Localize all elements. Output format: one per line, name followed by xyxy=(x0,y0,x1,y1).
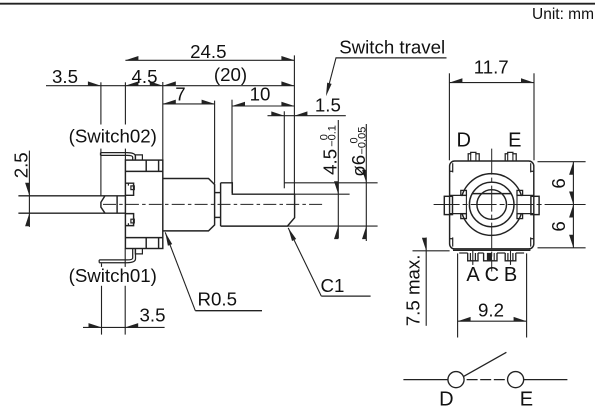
svg-text:4.5: 4.5 xyxy=(319,149,340,175)
svg-text:10: 10 xyxy=(250,83,271,104)
svg-text:R0.5: R0.5 xyxy=(198,288,237,309)
svg-text:7.5 max.: 7.5 max. xyxy=(403,255,424,327)
svg-text:11.7: 11.7 xyxy=(474,56,509,77)
svg-text:6: 6 xyxy=(548,178,569,188)
svg-text:Unit: mm: Unit: mm xyxy=(532,6,594,23)
svg-text:E: E xyxy=(508,129,521,151)
svg-text:2.5: 2.5 xyxy=(11,152,32,178)
svg-text:D: D xyxy=(456,129,470,151)
svg-text:C: C xyxy=(485,264,499,286)
svg-text:D: D xyxy=(439,389,453,411)
svg-text:Switch travel: Switch travel xyxy=(339,36,445,57)
svg-text:B: B xyxy=(504,264,517,286)
svg-text:E: E xyxy=(520,389,533,411)
svg-text:7: 7 xyxy=(175,83,185,104)
svg-text:A: A xyxy=(466,264,480,286)
svg-text:−0.1: −0.1 xyxy=(327,125,339,147)
svg-text:4.5: 4.5 xyxy=(132,66,158,87)
svg-text:3.5: 3.5 xyxy=(140,305,166,326)
svg-text:−0.05: −0.05 xyxy=(357,127,369,155)
svg-text:9.2: 9.2 xyxy=(478,299,504,320)
svg-text:1.5: 1.5 xyxy=(315,94,341,115)
svg-text:ø6: ø6 xyxy=(348,155,369,177)
svg-text:3.5: 3.5 xyxy=(52,66,78,87)
svg-text:24.5: 24.5 xyxy=(190,41,226,62)
svg-text:C1: C1 xyxy=(321,275,345,296)
svg-text:(20): (20) xyxy=(214,64,247,85)
svg-text:(Switch01): (Switch01) xyxy=(69,265,157,286)
svg-text:(Switch02): (Switch02) xyxy=(69,126,157,147)
svg-text:6: 6 xyxy=(548,221,569,231)
